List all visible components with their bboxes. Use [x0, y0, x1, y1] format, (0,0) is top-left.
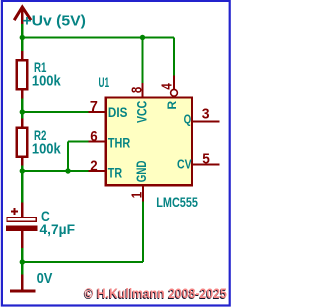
- svg-text:TR: TR: [108, 166, 122, 182]
- svg-text:LMC555: LMC555: [156, 195, 198, 211]
- pin 2 TR stub: [89, 170, 105, 172]
- wire TR pin2: [22, 170, 88, 172]
- resistor R2: [17, 119, 28, 166]
- junction R1/R2/DIS: [20, 109, 25, 114]
- svg-text:6: 6: [90, 129, 97, 145]
- wire DIS pin7: [22, 111, 88, 113]
- pin 6 THR stub: [89, 140, 105, 142]
- svg-text:1: 1: [129, 192, 145, 198]
- pin 8 VCC stub: [141, 83, 143, 97]
- svg-text:100k: 100k: [32, 142, 62, 158]
- pin 5 CV stub: [193, 163, 220, 165]
- junction bottom rail: [20, 259, 25, 264]
- svg-text:7: 7: [90, 99, 98, 115]
- ground symbol 0V: [10, 275, 36, 291]
- wire R2 bottom to capacitor: [21, 166, 23, 204]
- svg-text:5: 5: [202, 151, 210, 167]
- svg-text:U1: U1: [99, 74, 110, 90]
- junction THR/TR: [65, 168, 70, 173]
- svg-text:VCC: VCC: [134, 101, 149, 123]
- op-amp U1 body (LMC555 IC): [106, 98, 192, 186]
- pin 4 R stub: [173, 76, 175, 90]
- svg-text:Q: Q: [184, 112, 192, 126]
- svg-text:R2: R2: [34, 127, 47, 143]
- wire bottom ground rail: [22, 261, 143, 263]
- svg-text:0V: 0V: [37, 270, 53, 287]
- wire capacitor bottom to gnd node: [21, 248, 23, 263]
- svg-text:DIS: DIS: [108, 105, 128, 120]
- svg-text:3: 3: [202, 107, 210, 123]
- svg-text:GND: GND: [134, 160, 149, 182]
- wire THR to TR vertical: [67, 142, 69, 172]
- svg-text:R: R: [165, 100, 179, 109]
- pin 3 Q stub: [193, 120, 220, 122]
- svg-text:8: 8: [129, 87, 145, 93]
- junction top rail left: [20, 35, 25, 40]
- svg-text:THR: THR: [108, 136, 130, 152]
- wire gnd stub: [21, 262, 23, 275]
- svg-text:4: 4: [159, 83, 175, 89]
- page border frame: [2, 1, 230, 306]
- svg-text:2: 2: [90, 158, 97, 174]
- wire power arrow to rail: [21, 24, 23, 52]
- wire R1 bottom to R2 top: [21, 98, 23, 119]
- wire pin4 vertical: [173, 38, 175, 76]
- svg-text:+Uv (5V): +Uv (5V): [22, 12, 86, 29]
- capacitor C (polarized): [6, 203, 37, 249]
- svg-text:CV: CV: [177, 157, 192, 172]
- junction R2/TR rail: [20, 168, 25, 173]
- svg-text:4,7µF: 4,7µF: [40, 221, 76, 237]
- pin 7 DIS stub: [89, 111, 105, 113]
- svg-text:R1: R1: [34, 59, 47, 75]
- wire top supply rail: [22, 36, 174, 38]
- wire pin8 vertical: [141, 38, 143, 84]
- pin 1 GND stub: [142, 186, 144, 202]
- resistor R1: [17, 51, 28, 99]
- svg-text:100k: 100k: [32, 74, 62, 90]
- power symbol +Uv arrow: [14, 7, 31, 24]
- svg-text:© H.Kullmann 2008-2025: © H.Kullmann 2008-2025: [84, 286, 227, 301]
- junction top rail pin8: [140, 35, 145, 40]
- wire pin1 vertical: [142, 201, 144, 262]
- pin 4 inversion bubble: [171, 89, 178, 96]
- wire THR pin6: [68, 140, 89, 142]
